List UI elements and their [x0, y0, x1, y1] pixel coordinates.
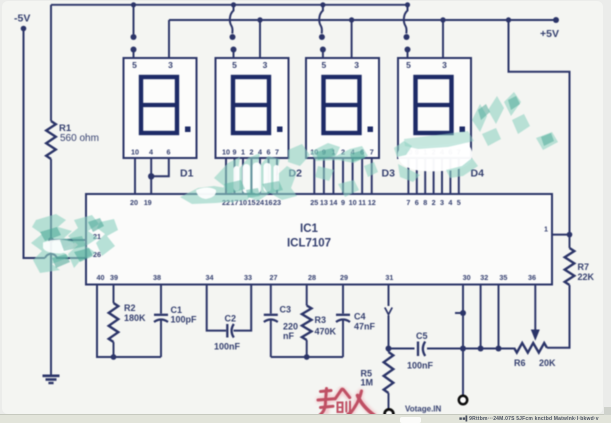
- wire pin31 down: [385, 285, 392, 349]
- label R6 20K: [514, 358, 556, 368]
- svg-text:Votage.IN: Votage.IN: [405, 405, 442, 414]
- svg-text:D3: D3: [382, 168, 396, 180]
- svg-text:4: 4: [448, 198, 452, 207]
- svg-text:27: 27: [270, 273, 278, 282]
- wire pin32 down: [478, 285, 484, 352]
- label C5 100nF: [407, 331, 434, 371]
- wire rail2 to +5V: [169, 19, 556, 21]
- wire pin30 column: [462, 285, 464, 396]
- svg-text:7: 7: [370, 148, 374, 157]
- svg-text:13: 13: [320, 198, 328, 207]
- svg-text:11: 11: [358, 198, 366, 207]
- label +5V: [540, 28, 559, 40]
- svg-text:9: 9: [341, 198, 345, 207]
- label Votage IN: [405, 405, 442, 414]
- wire D2 bus to IC: [226, 158, 277, 194]
- label C2 100nF: [214, 314, 241, 352]
- svg-text:5: 5: [457, 198, 461, 207]
- junction dot R2 bottom: [111, 354, 117, 360]
- wire D4 pin3 riser: [440, 17, 445, 58]
- wire D2 pin3 riser: [257, 17, 262, 58]
- svg-text:32: 32: [480, 273, 488, 282]
- terminal Votage IN: [459, 396, 467, 404]
- svg-text:4: 4: [149, 148, 153, 157]
- label D3: [382, 168, 396, 180]
- svg-text:19: 19: [144, 198, 152, 207]
- wire D2 pin5 riser: [230, 2, 237, 58]
- svg-text:28: 28: [308, 273, 316, 282]
- junction dot R3 bottom: [304, 354, 310, 360]
- wire pin40 down: [97, 285, 161, 358]
- junction dot pin30 input rail: [460, 346, 466, 352]
- label R7 22K: [578, 262, 595, 282]
- label D2: [289, 168, 303, 180]
- svg-text:+5V: +5V: [540, 28, 559, 40]
- pin 1 label: [544, 225, 548, 234]
- svg-text:1: 1: [544, 225, 548, 234]
- svg-text:38: 38: [153, 273, 161, 282]
- op-amp U1 IC box ICL7107: [86, 194, 552, 285]
- display D2: [216, 58, 289, 158]
- resistor R5: [384, 349, 394, 410]
- svg-text:-5V: -5V: [14, 13, 30, 25]
- svg-text:7: 7: [406, 198, 410, 207]
- wire -5V hop to pin26: [45, 254, 86, 258]
- wire pin35 down: [496, 285, 502, 352]
- svg-text:1: 1: [241, 148, 245, 157]
- wire D1 pin6 join: [151, 158, 169, 176]
- pin 26 label: [93, 250, 101, 259]
- wire input node to C5: [389, 348, 415, 350]
- svg-text:C1: C1: [171, 305, 183, 315]
- wire D4 bus to IC: [408, 158, 458, 194]
- wire R7 top: [569, 235, 571, 248]
- svg-text:3: 3: [354, 60, 359, 70]
- stub at pin30 column: [455, 312, 463, 314]
- svg-text:9: 9: [233, 148, 237, 157]
- junction dot D1 pin4/6: [148, 173, 154, 179]
- svg-text:33: 33: [244, 273, 252, 282]
- wire ground column upper: [50, 5, 52, 121]
- display D4: [398, 58, 471, 158]
- svg-text:10: 10: [222, 148, 230, 157]
- svg-text:47nF: 47nF: [354, 322, 376, 332]
- svg-text:100nF: 100nF: [407, 361, 434, 371]
- label C3 220nF: [280, 305, 299, 342]
- svg-text:20K: 20K: [539, 358, 556, 368]
- capacitor C2: [227, 324, 234, 338]
- watermark overlay: [31, 92, 558, 273]
- svg-text:6: 6: [415, 198, 419, 207]
- wire D3 bus to IC: [314, 158, 371, 194]
- svg-text:10: 10: [131, 148, 139, 157]
- wire +/- rail top (rail1): [51, 4, 408, 6]
- svg-text:7: 7: [275, 148, 279, 157]
- svg-text:3: 3: [442, 60, 447, 70]
- pin numbers IC bottom row: [97, 273, 537, 282]
- svg-text:20: 20: [130, 198, 138, 207]
- node -5V terminal dot: [21, 26, 27, 32]
- wire ground column lower: [50, 159, 52, 375]
- svg-text:C2: C2: [225, 314, 237, 324]
- svg-text:5: 5: [232, 60, 237, 70]
- wire D1 pin10 to IC20: [134, 158, 136, 194]
- svg-text:3: 3: [168, 60, 173, 70]
- svg-text:6: 6: [267, 148, 271, 157]
- svg-text:D1: D1: [180, 168, 194, 180]
- label ICL7107: [287, 238, 331, 250]
- svg-text:R3: R3: [315, 315, 327, 325]
- svg-text:29: 29: [340, 273, 348, 282]
- svg-text:nF: nF: [283, 331, 294, 341]
- svg-text:2: 2: [432, 198, 436, 207]
- svg-text:40: 40: [97, 273, 105, 282]
- svg-text:8: 8: [423, 198, 427, 207]
- svg-text:180K: 180K: [124, 313, 146, 323]
- pin 21 label: [93, 232, 101, 241]
- svg-text:10: 10: [349, 198, 357, 207]
- svg-text:220: 220: [283, 322, 298, 332]
- junction dot pin21: [48, 237, 54, 243]
- svg-text:34: 34: [206, 273, 214, 282]
- junction dot rail2 feed: [506, 17, 511, 22]
- resistor R1: [46, 121, 56, 159]
- svg-text:470K: 470K: [315, 327, 337, 337]
- node +5V terminal dot: [553, 17, 559, 23]
- resistor R6 pot: [514, 343, 547, 353]
- svg-text:35: 35: [499, 273, 507, 282]
- label D4: [471, 168, 485, 180]
- capacitor C1: [154, 285, 168, 358]
- wire C3-R3-C4 bottom: [271, 356, 343, 358]
- label R5 1M: [361, 369, 374, 388]
- svg-text:30: 30: [463, 273, 471, 282]
- svg-text:C5: C5: [416, 331, 428, 341]
- svg-text:R7: R7: [578, 262, 590, 272]
- wire pin36 wiper: [531, 285, 540, 341]
- svg-text:5: 5: [322, 60, 327, 70]
- wire C2 loop: [207, 285, 252, 331]
- svg-text:23: 23: [273, 198, 281, 207]
- wire +5V feed right side: [509, 20, 570, 235]
- svg-text:36: 36: [528, 273, 536, 282]
- node -5V label: [14, 13, 30, 25]
- capacitor C3: [264, 285, 278, 358]
- svg-text:3: 3: [263, 60, 268, 70]
- junction dot pin1 node: [567, 232, 573, 238]
- label C1 100pF: [171, 305, 198, 325]
- wire D3 pin3 riser: [349, 17, 354, 58]
- label R1 560 ohm: [59, 123, 99, 144]
- svg-text:R2: R2: [124, 303, 136, 313]
- svg-text:25: 25: [310, 198, 318, 207]
- svg-text:100pF: 100pF: [171, 315, 198, 325]
- wire -5V vertical: [24, 29, 46, 259]
- wire to IC pin 21: [51, 239, 86, 241]
- capacitor C4: [336, 285, 350, 358]
- terminal input low: [385, 409, 394, 418]
- svg-text:26: 26: [93, 250, 101, 259]
- wire IC pin1 to node: [552, 234, 570, 236]
- resistor R3: [302, 285, 312, 358]
- label R2 180K: [124, 303, 146, 323]
- wire C5 to R6: [427, 348, 514, 350]
- wire D1 pin5 riser: [131, 2, 137, 58]
- svg-text:100nF: 100nF: [214, 342, 241, 352]
- svg-text:2: 2: [250, 148, 254, 157]
- label D1: [180, 168, 194, 180]
- svg-text:IC1: IC1: [300, 223, 319, 235]
- wire D3 pin5 riser: [319, 2, 326, 58]
- svg-text:R6: R6: [514, 358, 526, 368]
- resistor R7: [565, 248, 575, 285]
- resistor R2: [109, 285, 119, 358]
- svg-text:1M: 1M: [361, 378, 374, 388]
- svg-text:5: 5: [132, 60, 137, 70]
- junction dot input node: [386, 346, 392, 352]
- svg-text:560 ohm: 560 ohm: [60, 133, 99, 144]
- wire D1 pin4 to IC19: [150, 158, 152, 194]
- label C4 47nF: [354, 312, 376, 332]
- label IC1: [300, 223, 319, 235]
- svg-text:5: 5: [406, 60, 411, 70]
- svg-text:C3: C3: [280, 305, 292, 315]
- display D3: [306, 58, 379, 158]
- svg-text:16: 16: [265, 198, 273, 207]
- ground symbol: [43, 376, 60, 383]
- svg-text:ICL7107: ICL7107: [287, 238, 331, 250]
- label input (Chinese) red: [318, 389, 375, 416]
- capacitor C5: [418, 342, 425, 357]
- svg-text:39: 39: [110, 273, 118, 282]
- svg-text:3: 3: [440, 198, 444, 207]
- junction dot stub: [460, 310, 466, 316]
- pin numbers IC top row: [130, 198, 461, 207]
- svg-text:C4: C4: [354, 312, 366, 322]
- svg-text:6: 6: [167, 148, 171, 157]
- display D1: [124, 58, 197, 158]
- label R3 470K: [315, 315, 337, 337]
- svg-text:12: 12: [368, 198, 376, 207]
- wire D4 pin5 riser (rail1 end): [404, 2, 411, 58]
- wire D1 pin3 riser: [168, 20, 170, 58]
- svg-text:14: 14: [329, 198, 337, 207]
- wire R7 bottom to R6: [547, 285, 570, 348]
- svg-text:31: 31: [385, 273, 393, 282]
- svg-text:22K: 22K: [578, 272, 595, 282]
